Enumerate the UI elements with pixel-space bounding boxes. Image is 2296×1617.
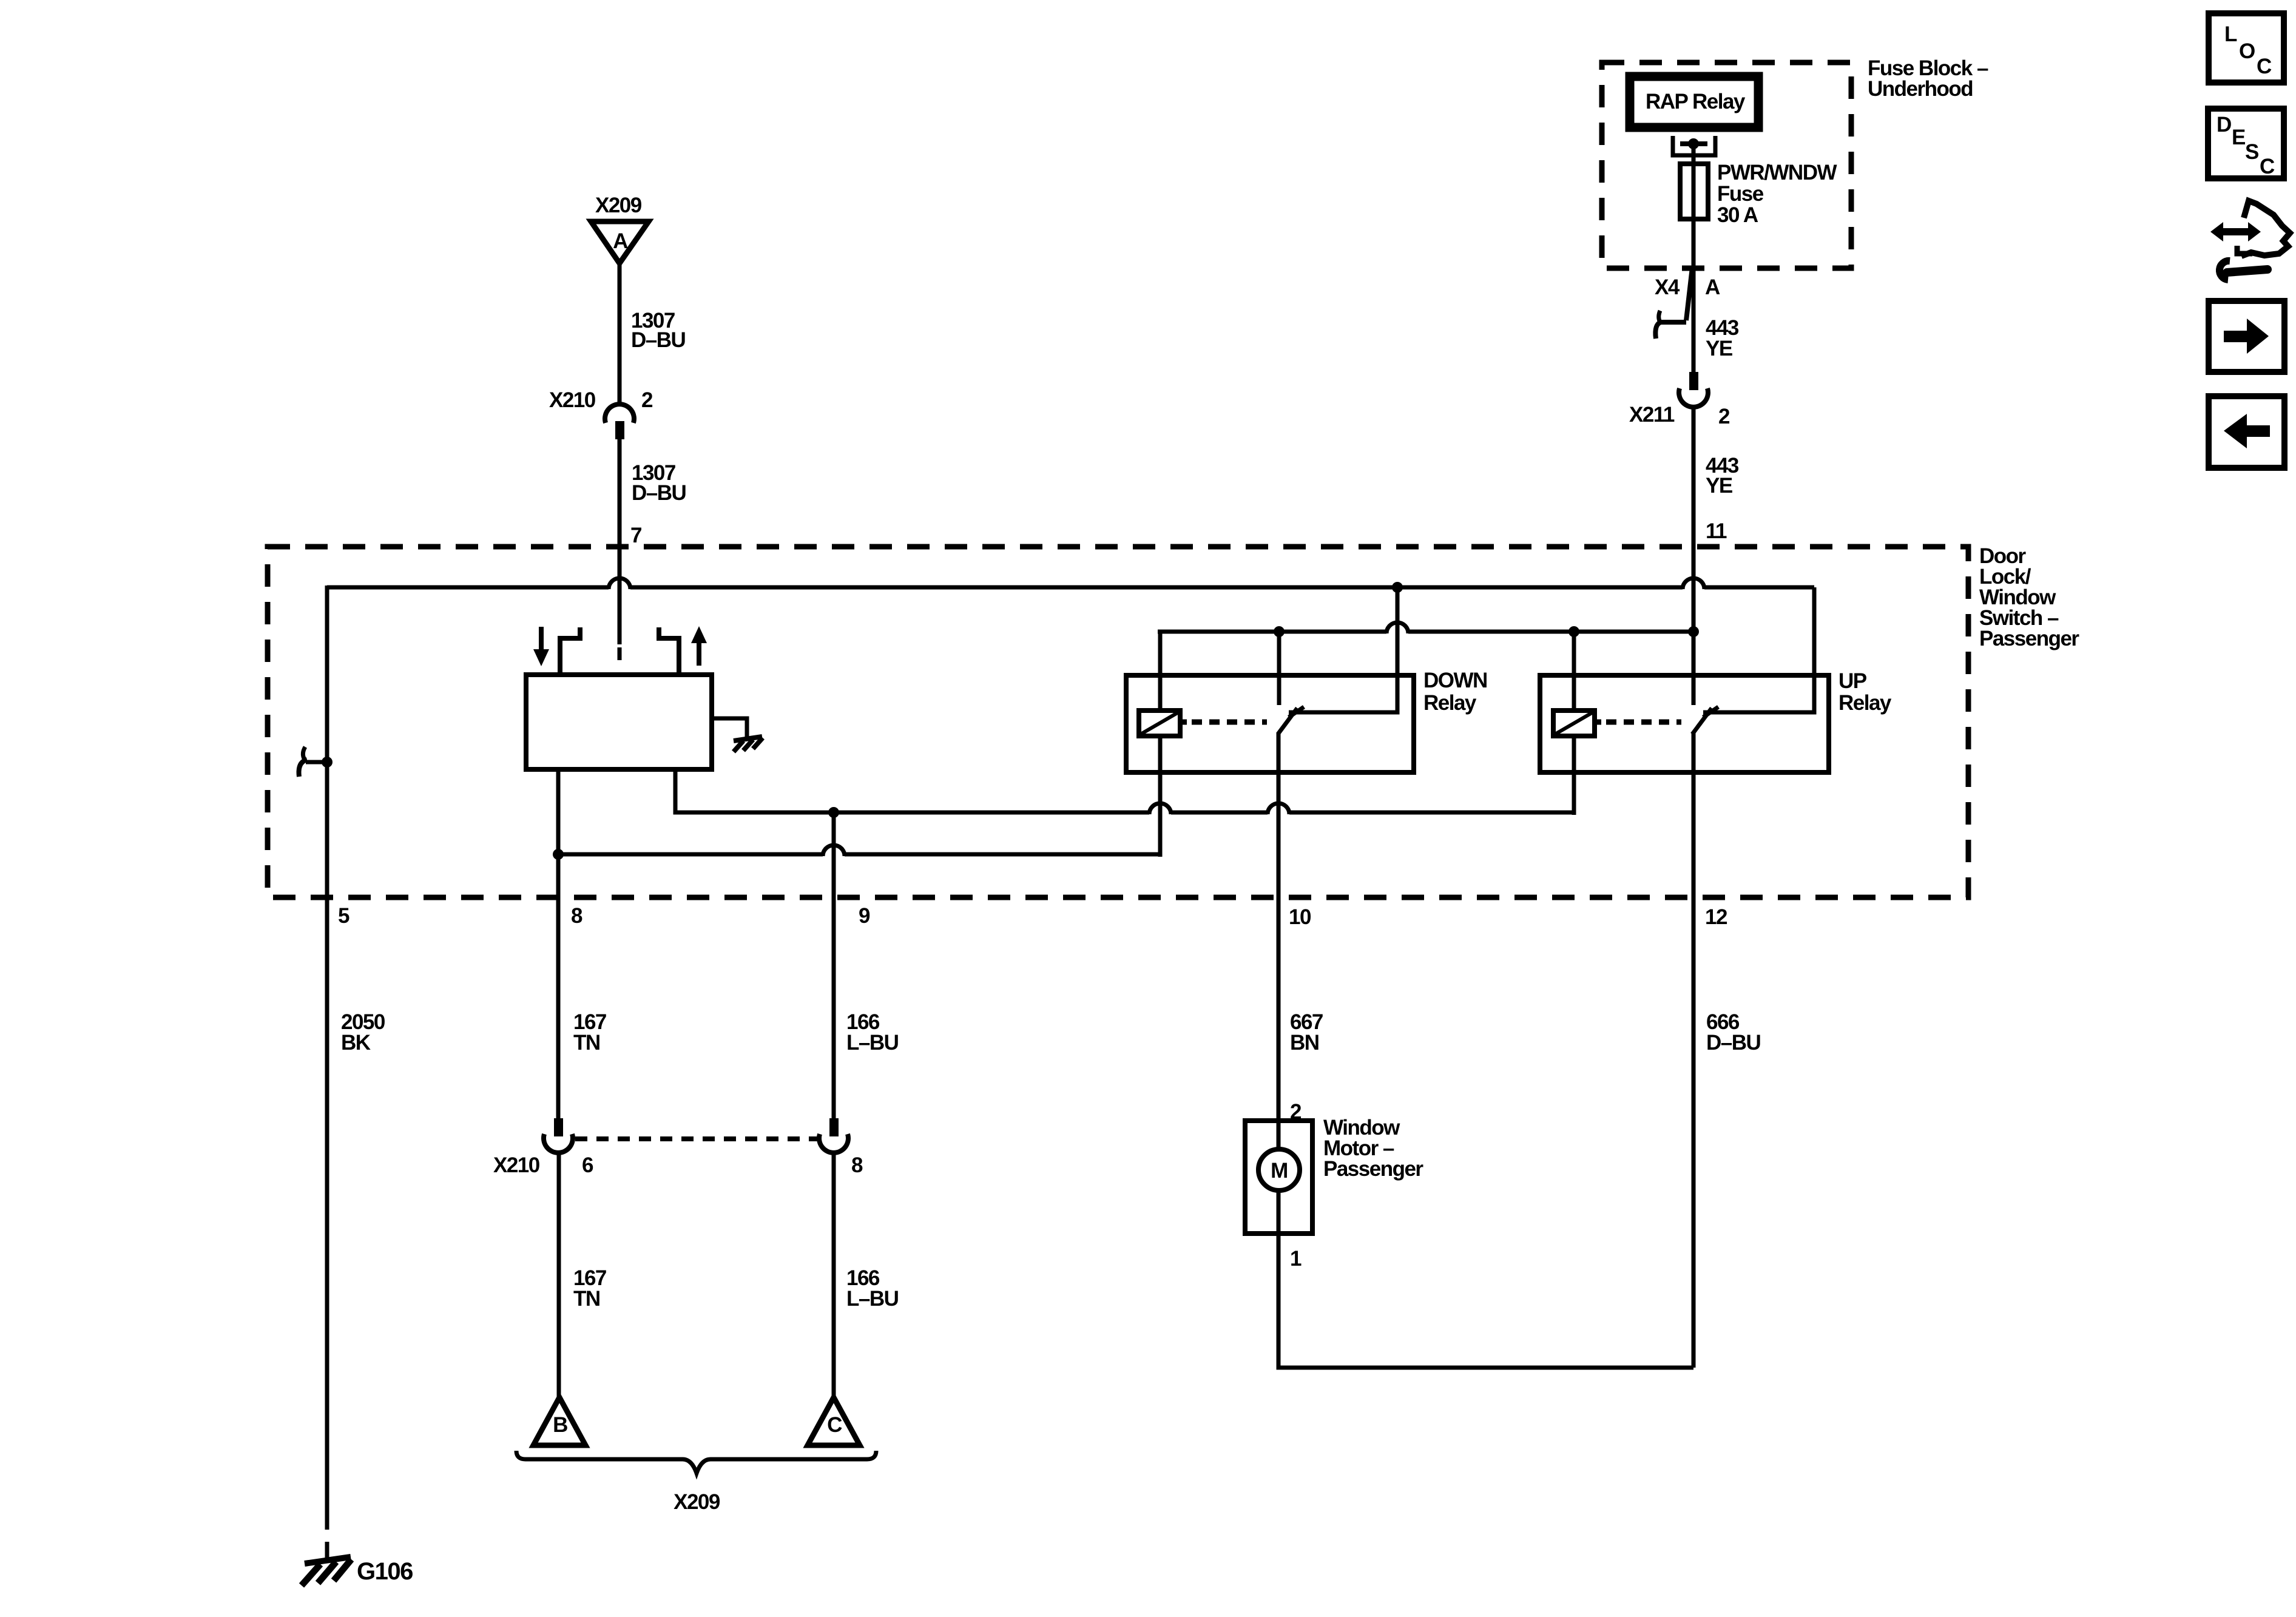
connector X211 pin 2 symbol (1679, 372, 1708, 407)
svg-text:DOWN: DOWN (1423, 669, 1487, 692)
svg-text:C: C (2257, 55, 2272, 78)
connector X210 pin 2 labels (549, 388, 653, 412)
splice clip on pin5 wire (299, 747, 333, 777)
ground bus wire y=968 (327, 578, 1814, 589)
pin number labels under box (338, 904, 349, 928)
svg-text:7: 7 (630, 524, 641, 547)
label 443 YE upper (1706, 316, 1739, 360)
node DOWN contact feed (1274, 626, 1285, 637)
svg-text:Passenger: Passenger (1979, 627, 2079, 650)
svg-text:A: A (1705, 275, 1720, 299)
brace X209 (516, 1451, 876, 1514)
connector X210 pin 6 symbol (544, 1118, 573, 1153)
svg-text:YE: YE (1706, 337, 1732, 360)
UP relay coil (1553, 711, 1595, 736)
icon repair double arrow (2210, 201, 2290, 256)
svg-text:D–BU: D–BU (631, 328, 686, 352)
wire 166 L-BU labels lower (846, 1266, 899, 1311)
window switch box (526, 675, 712, 769)
svg-text:8: 8 (571, 904, 582, 928)
pin 7 label (630, 524, 641, 547)
svg-text:9: 9 (859, 904, 870, 928)
icon wrench (2220, 261, 2267, 280)
svg-text:D–BU: D–BU (632, 481, 686, 505)
DOWN relay coil (1139, 711, 1180, 736)
svg-text:X211: X211 (1629, 403, 1675, 427)
svg-text:30 A: 30 A (1717, 203, 1758, 227)
svg-text:Passenger: Passenger (1323, 1157, 1423, 1181)
svg-text:UP: UP (1838, 669, 1867, 693)
svg-text:D: D (2217, 113, 2231, 137)
svg-text:C: C (2260, 155, 2275, 178)
node UP coil feed (1568, 626, 1579, 637)
svg-text:L: L (2224, 22, 2237, 46)
feed bus wire y=1041 (1158, 623, 1693, 633)
wire pin8 line to DOWN relay coil (558, 845, 1160, 856)
fuse block underhood dashed box (1602, 62, 1851, 268)
motor M window motor passenger (1245, 1121, 1312, 1234)
switch up arrow (691, 626, 707, 666)
svg-text:D–BU: D–BU (1706, 1031, 1761, 1055)
switch right terminal (659, 627, 679, 675)
chassis ground symbol (734, 737, 763, 752)
wire pin 12 down from contact hinge (1692, 733, 1696, 1368)
labels X211 2 (1629, 403, 1730, 428)
label UP Relay (1838, 669, 1892, 715)
RAP relay output terminal bracket (1673, 136, 1715, 155)
svg-text:M: M (1271, 1159, 1288, 1183)
svg-text:B: B (553, 1413, 567, 1437)
svg-text:TN: TN (573, 1031, 600, 1055)
label Door Lock/Window Switch - Passenger (1979, 544, 2079, 650)
label 1307 D-BU lower (632, 461, 686, 505)
label Fuse Block - Underhood (1868, 56, 1988, 101)
svg-text:C: C (827, 1413, 842, 1437)
svg-text:8: 8 (851, 1153, 863, 1177)
DOWN relay feed stub (1277, 632, 1281, 705)
DOWN relay linkage dashed (1180, 720, 1267, 725)
svg-text:X209: X209 (595, 194, 642, 217)
svg-text:Relay: Relay (1838, 691, 1892, 715)
wire 443 YE from X211 to switch pin 11 (1692, 406, 1696, 705)
svg-text:RAP Relay: RAP Relay (1646, 90, 1746, 113)
window motor labels 2 (1290, 1100, 1302, 1124)
wire X210-8 down to C (832, 1152, 836, 1397)
labels X4 A (1655, 275, 1720, 299)
node pin11 feed (1688, 626, 1699, 637)
connector X210 dashed tie (575, 1136, 818, 1141)
label 1 (1290, 1247, 1302, 1271)
connector X210 pin 8 symbol (819, 1118, 848, 1153)
svg-text:BN: BN (1290, 1031, 1319, 1055)
wire 1307 D-BU from A to X210 (618, 263, 622, 405)
icon forward arrow box (2209, 301, 2284, 372)
label Window Motor - Passenger (1323, 1116, 1423, 1181)
DOWN relay box (1126, 675, 1414, 772)
svg-text:1: 1 (1290, 1247, 1302, 1271)
wire pin8 to X210-6 (556, 854, 561, 1118)
fuse PWR/WNDW 30A (1680, 164, 1708, 219)
UP relay fixed contact to ground bus (1703, 587, 1814, 712)
wire 2050 BK dashed lower (325, 1513, 329, 1564)
wire 666 D-BU labels (1706, 1010, 1761, 1055)
connector X209 terminal C triangle (808, 1397, 860, 1445)
svg-text:Fuse: Fuse (1717, 182, 1764, 206)
node pin9 junction (828, 807, 839, 818)
icon DESC box (2208, 109, 2284, 178)
svg-text:G106: G106 (357, 1558, 413, 1585)
wire bus left leg down to pin 5 (325, 586, 329, 1513)
svg-text:TN: TN (573, 1287, 600, 1311)
wire 166 L-BU labels upper (846, 1010, 899, 1055)
svg-text:11: 11 (1706, 519, 1727, 543)
door lock/window switch passenger dashed box (268, 547, 1968, 897)
wire RAP relay to fuse (1692, 144, 1696, 372)
pin 11 label (1706, 519, 1727, 543)
wire switch pin 8 leg (556, 769, 561, 854)
svg-text:YE: YE (1706, 474, 1732, 498)
UP relay linkage dashed (1595, 720, 1681, 725)
DOWN relay fixed contact to ground bus (1289, 587, 1397, 712)
wire 1307 D-BU from X210 to switch pin 7 (618, 439, 622, 660)
switch ground stub (712, 718, 747, 738)
connector X209 terminal B triangle (533, 1397, 586, 1445)
svg-text:X210: X210 (493, 1153, 540, 1177)
svg-text:2: 2 (641, 388, 653, 412)
label 443 YE lower (1706, 454, 1739, 498)
svg-text:A: A (613, 229, 628, 253)
svg-text:X4: X4 (1655, 275, 1680, 299)
wire switch output line to UP relay coil (1149, 803, 1575, 814)
svg-text:L–BU: L–BU (846, 1031, 899, 1055)
svg-text:X210: X210 (549, 388, 596, 412)
node pin8 junction (553, 849, 564, 860)
DOWN relay moving contact (1278, 707, 1304, 734)
svg-text:10: 10 (1289, 905, 1311, 929)
svg-text:PWR/WNDW: PWR/WNDW (1717, 161, 1837, 184)
icon LOC box (2209, 13, 2284, 83)
ground G106 symbol (302, 1557, 413, 1585)
wire 167 TN labels lower (573, 1266, 606, 1311)
wire motor pin1 to pin 12 (1278, 1234, 1693, 1368)
wire X210-6 down to B (557, 1152, 561, 1397)
labels X210 6 8 (493, 1153, 863, 1177)
switch down arrow (533, 627, 549, 666)
svg-text:E: E (2232, 126, 2245, 149)
svg-text:5: 5 (338, 904, 349, 928)
svg-text:L–BU: L–BU (846, 1287, 899, 1311)
svg-text:Underhood: Underhood (1868, 77, 1973, 101)
UP relay moving contact (1692, 707, 1718, 734)
svg-text:12: 12 (1705, 905, 1727, 929)
wire switch pin 9 leg (675, 769, 1149, 812)
svg-text:2: 2 (1718, 405, 1730, 428)
svg-text:X209: X209 (674, 1490, 720, 1514)
label DOWN Relay (1423, 669, 1487, 715)
switch left terminal (560, 627, 580, 675)
node fixed contact bus junction (1392, 582, 1403, 593)
UP relay coil wire (1572, 632, 1576, 815)
svg-text:Relay: Relay (1423, 691, 1477, 715)
wire 667 BN labels (1290, 1010, 1323, 1055)
connector X209 label top (595, 194, 642, 217)
wire pin 9 down (832, 812, 836, 1118)
label PWR/WNDW Fuse 30 A (1717, 161, 1837, 227)
connector X210 pin 2 symbol (605, 404, 634, 439)
wire 167 TN labels upper (573, 1010, 606, 1055)
wire 2050 BK labels (341, 1010, 385, 1055)
DOWN relay coil wire (1158, 632, 1163, 857)
icon back arrow box (2209, 396, 2284, 468)
connector X4 lever symbol (1655, 268, 1692, 339)
svg-text:O: O (2239, 39, 2255, 63)
label 1307 D-BU upper (631, 309, 686, 352)
wire pin 10 down from contact hinge (1277, 733, 1281, 1121)
connector X209 terminal A triangle (591, 221, 649, 263)
relay RAP Relay box (1630, 76, 1758, 127)
svg-text:S: S (2245, 140, 2258, 164)
svg-text:6: 6 (582, 1153, 593, 1177)
svg-text:BK: BK (341, 1031, 371, 1055)
UP relay box (1540, 675, 1829, 772)
